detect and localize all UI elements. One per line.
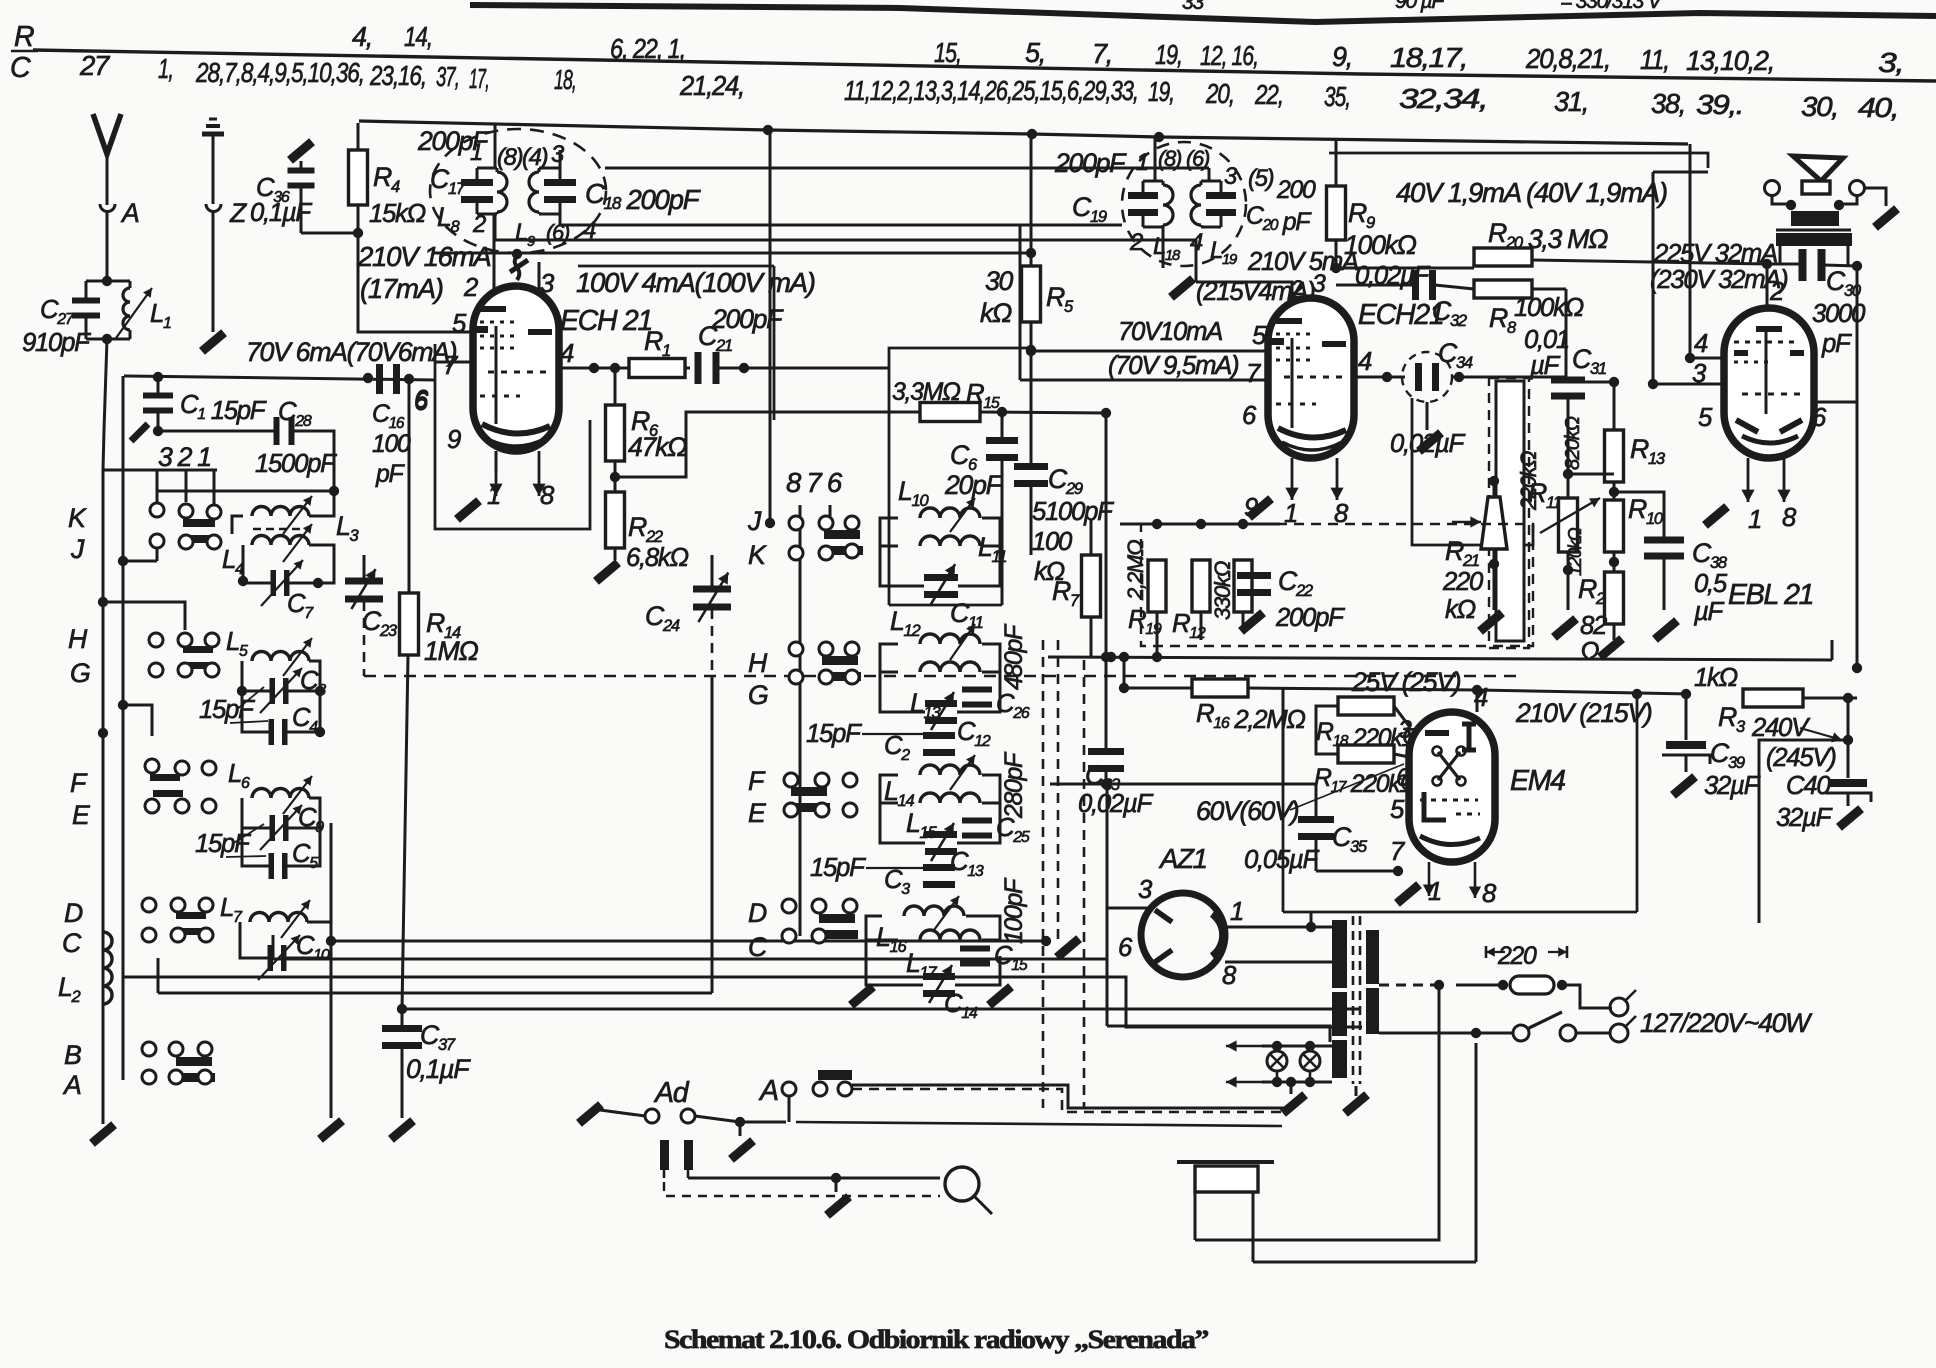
svg-text:B: B — [64, 1040, 81, 1070]
coil L1 variable — [129, 281, 132, 288]
capacitor C36 — [300, 161, 303, 169]
box around L10 region — [889, 348, 1031, 605]
IF coil L15 — [920, 793, 980, 803]
ground mid-left — [320, 1121, 342, 1140]
wires resistor block — [1120, 523, 1280, 526]
band switch section B/A — [142, 1042, 156, 1056]
solid bus from switch A — [852, 1085, 1290, 1108]
pin 7 stub — [435, 361, 473, 364]
capacitor C26 — [962, 687, 992, 693]
svg-text:E: E — [748, 798, 767, 828]
pin 1 lead IF II — [1154, 137, 1157, 181]
capacitor C25 — [962, 818, 992, 824]
power transformer secondary bars — [1366, 930, 1379, 984]
box 40V — [1329, 153, 1708, 168]
svg-text:23,16,: 23,16, — [369, 60, 426, 91]
svg-text:28,7,8,4,9,5,10,36,: 28,7,8,4,9,5,10,36, — [195, 57, 364, 88]
capacitor C27 with L1 tank — [102, 276, 112, 286]
svg-text:A: A — [758, 1075, 778, 1107]
wires R17 R18 — [1316, 706, 1338, 754]
svg-text:480pF: 480pF — [1001, 623, 1028, 690]
wire box around 210V label — [358, 233, 474, 332]
svg-text:(70V 9,5mA): (70V 9,5mA) — [1108, 352, 1239, 380]
resistor R4 — [357, 123, 360, 150]
svg-text:30: 30 — [985, 266, 1014, 296]
svg-text:3 2 1: 3 2 1 — [158, 442, 211, 472]
grid 2 lead — [493, 215, 496, 302]
trimmer C4 — [269, 719, 275, 745]
svg-text:100: 100 — [1032, 528, 1073, 556]
capacitor C21 — [695, 352, 702, 384]
ECH21 II internals — [1276, 318, 1302, 324]
output transformer core line — [1776, 229, 1851, 232]
svg-text:21,24,: 21,24, — [679, 70, 744, 101]
svg-text:6: 6 — [1812, 404, 1827, 432]
ECH21 I internals — [480, 306, 506, 312]
variable capacitor C23 — [345, 578, 383, 585]
ground speaker — [1875, 209, 1897, 228]
svg-text:0,1µF: 0,1µF — [406, 1054, 471, 1084]
svg-text:C: C — [748, 932, 768, 962]
svg-text:330kΩ: 330kΩ — [1210, 560, 1235, 620]
capacitor C18 — [544, 179, 576, 186]
svg-text:3: 3 — [1224, 163, 1238, 190]
tube AZ1 envelope — [1141, 893, 1225, 977]
svg-text:(8): (8) — [1158, 146, 1182, 171]
svg-text:6,8kΩ: 6,8kΩ — [626, 544, 688, 572]
svg-text:D: D — [748, 898, 767, 928]
resistor R18 — [1282, 688, 1284, 706]
phono shelf — [1177, 1160, 1274, 1164]
transformer core dashed — [1352, 916, 1355, 1084]
svg-text:1: 1 — [470, 139, 482, 166]
coil L4 variable — [252, 536, 309, 546]
resistor R9 — [1335, 139, 1338, 186]
capacitor C37 — [401, 1009, 404, 1026]
section F/E loop wires — [242, 798, 270, 866]
svg-text:220: 220 — [1497, 943, 1537, 970]
svg-text:1: 1 — [1136, 149, 1148, 176]
anode wire to C34 — [1354, 376, 1405, 379]
capacitor C34 in dashed circle — [1402, 352, 1452, 402]
svg-text:= 330/313 V: = 330/313 V — [1560, 0, 1664, 13]
svg-text:13,10,2,: 13,10,2, — [1686, 45, 1774, 76]
svg-text:3: 3 — [540, 270, 555, 298]
svg-text:EM4: EM4 — [1510, 765, 1565, 797]
svg-text:19,: 19, — [1155, 39, 1182, 70]
anode wire pin4 to R1 — [559, 367, 629, 370]
antenna symbol — [93, 114, 121, 154]
ground left bus — [92, 1125, 114, 1144]
output transformer secondary bar — [1776, 233, 1852, 246]
svg-text:15pF: 15pF — [810, 854, 866, 882]
svg-text:37,: 37, — [436, 61, 459, 92]
svg-text:0,01: 0,01 — [1524, 326, 1569, 354]
speaker body — [1802, 181, 1830, 194]
band switch section K/J — [150, 503, 164, 517]
wire 70V to mixer — [980, 411, 1031, 413]
svg-text:18,17,: 18,17, — [1390, 42, 1467, 73]
svg-text:R16 2,2MΩ: R16 2,2MΩ — [1196, 700, 1305, 734]
svg-text:910pF: 910pF — [22, 329, 91, 357]
trimmer C14 — [923, 973, 955, 980]
tube ECH21 II envelope — [1268, 298, 1354, 458]
svg-text:3,: 3, — [1878, 47, 1903, 78]
svg-text:8: 8 — [1782, 504, 1797, 532]
svg-text:25V (25V): 25V (25V) — [1351, 667, 1461, 697]
ground IF II — [1162, 227, 1165, 268]
trimmer stroke near C1 — [131, 424, 148, 441]
resistor R14 — [400, 593, 419, 655]
leads to C30 line — [1779, 246, 1782, 264]
trimmer C13 — [925, 831, 957, 838]
svg-text:20,8,21,: 20,8,21, — [1525, 43, 1610, 74]
pin leads ECH21 II — [1291, 458, 1294, 500]
EBL21 pin6 wire — [1814, 401, 1857, 404]
svg-text:3: 3 — [551, 141, 565, 168]
svg-text:8 7 6: 8 7 6 — [786, 467, 843, 498]
svg-text:0,5: 0,5 — [1694, 570, 1728, 598]
svg-text:6: 6 — [1242, 402, 1257, 430]
capacitor C6 — [986, 437, 1018, 444]
svg-text:1500pF: 1500pF — [255, 450, 337, 478]
coil L3 variable — [252, 507, 309, 517]
top cap connector of ECH21 I — [512, 249, 522, 259]
grid wire EBL21 — [1568, 473, 1614, 475]
svg-text:(5): (5) — [1248, 165, 1274, 192]
capacitor C40 — [1847, 740, 1850, 778]
dashed pickup return — [664, 1182, 938, 1196]
svg-text:J: J — [747, 506, 762, 536]
svg-text:(245V): (245V) — [1766, 744, 1836, 772]
HT branch vertical — [1030, 134, 1033, 266]
svg-text:C40: C40 — [1786, 772, 1831, 800]
svg-text:210V 16mA: 210V 16mA — [357, 241, 491, 272]
svg-text:70V10mA: 70V10mA — [1118, 318, 1222, 346]
svg-text:1kΩ: 1kΩ — [1694, 664, 1738, 692]
capacitor C29 — [1014, 463, 1048, 470]
terminal circles mains — [1610, 998, 1628, 1016]
variable capacitor C24 — [693, 586, 731, 593]
svg-text:4: 4 — [1190, 229, 1203, 256]
svg-text:(4): (4) — [522, 144, 548, 171]
svg-text:K: K — [748, 540, 767, 570]
svg-text:H: H — [748, 648, 768, 678]
IF can II dashed circle — [1122, 142, 1246, 266]
dashed box R11 — [1489, 378, 1529, 648]
EBL21 pin leads — [1747, 458, 1750, 502]
potentiometer R21 — [1481, 497, 1507, 549]
dashed gang line — [364, 675, 1520, 678]
resistor R22 — [606, 492, 625, 548]
svg-text:(8): (8) — [497, 144, 523, 171]
left wiring verticals — [272, 935, 275, 959]
IF coil L16 — [904, 906, 964, 916]
wire R9 node to R20/R8 — [1336, 267, 1474, 270]
section K/J loop wires — [243, 545, 271, 583]
mid switch section J/K — [765, 518, 775, 528]
pin 5 wire ECH21 II — [1031, 350, 1268, 353]
trimmer C2 — [923, 732, 955, 739]
svg-text:Ω: Ω — [1580, 638, 1599, 666]
secondary coil L9 — [529, 172, 539, 212]
svg-text:pF: pF — [375, 461, 406, 488]
svg-text:3,3MΩ: 3,3MΩ — [892, 379, 961, 406]
pin 4 lead IF I — [559, 214, 562, 225]
EM4 internals — [1425, 730, 1449, 736]
wire 245V to vertical — [1759, 740, 1848, 923]
svg-text:2,2MΩ: 2,2MΩ — [1123, 539, 1148, 601]
svg-text:15,: 15, — [934, 37, 961, 68]
HT bus down to pin4 — [1689, 144, 1692, 358]
pin 3 lead IF I — [559, 150, 562, 168]
ground above C36 — [290, 142, 312, 161]
svg-text:11,: 11, — [1640, 44, 1669, 75]
svg-text:100V 4mA(100V mA): 100V 4mA(100V mA) — [576, 267, 815, 298]
svg-text:D: D — [64, 898, 83, 928]
IF can I dashed circle — [430, 129, 606, 253]
ground below R22 — [596, 563, 618, 582]
svg-text:K: K — [68, 503, 87, 533]
svg-text:82: 82 — [1580, 612, 1607, 640]
capacitor C33 — [1105, 657, 1108, 749]
svg-text:11,12,2,13,3,14,26,25,15,6,29,: 11,12,2,13,3,14,26,25,15,6,29,33, — [844, 75, 1138, 106]
svg-text:2: 2 — [1129, 229, 1143, 256]
svg-text:G: G — [748, 680, 768, 710]
screen wire pin3 — [1653, 383, 1724, 386]
svg-text:5: 5 — [1390, 796, 1405, 824]
box EM4 bottom — [1282, 784, 1285, 912]
AVC wire down to C33 — [1105, 413, 1108, 657]
svg-text:27: 27 — [79, 50, 111, 81]
svg-text:9: 9 — [447, 426, 461, 454]
svg-text:Ad: Ad — [653, 1077, 690, 1109]
svg-text:AZ1: AZ1 — [1158, 843, 1207, 874]
svg-text:40,: 40, — [1858, 92, 1898, 123]
coil L18 — [1163, 185, 1173, 225]
svg-text:6: 6 — [414, 386, 429, 414]
svg-text:33: 33 — [1182, 0, 1204, 14]
grid lead ECH21 II — [1196, 282, 1292, 300]
svg-text:220: 220 — [1442, 568, 1484, 596]
band switch section F/E — [118, 700, 128, 710]
trimmer C7 — [271, 570, 277, 596]
svg-text:100: 100 — [372, 431, 411, 458]
trimmer C5 — [269, 853, 275, 879]
svg-text:ECH 21: ECH 21 — [560, 305, 652, 337]
ground at ECH21 I cathode — [457, 501, 479, 520]
coil L7 variable — [250, 912, 307, 922]
wire 70V row — [124, 376, 435, 380]
svg-text:5: 5 — [1698, 404, 1713, 432]
trimmer C11 — [924, 574, 958, 581]
svg-text:E: E — [72, 800, 91, 830]
earth plug Z — [206, 204, 221, 212]
EBL21 internals — [1756, 326, 1782, 332]
speaker terminals — [1765, 181, 1780, 196]
AZ1 internals — [1155, 910, 1172, 922]
feedback wire R6 to R15 — [615, 412, 920, 477]
svg-text:4,: 4, — [352, 21, 372, 52]
transformer top wire — [1309, 911, 1311, 913]
svg-text:225V 32mA: 225V 32mA — [1653, 240, 1777, 268]
IF coil L13 — [920, 662, 980, 672]
pin 9/1/8 leads with arrows — [495, 451, 498, 472]
svg-text:47kΩ: 47kΩ — [628, 432, 687, 462]
capacitor C30 — [1762, 259, 1772, 269]
long wire C30 right down — [1856, 266, 1859, 668]
trimmer C3 — [923, 864, 955, 871]
svg-text:4: 4 — [1358, 348, 1372, 376]
svg-text:5: 5 — [1252, 322, 1267, 350]
capacitor C20 plates — [1206, 192, 1236, 199]
ground Ad — [739, 1122, 742, 1136]
svg-text:5100pF: 5100pF — [1032, 498, 1114, 526]
svg-text:280pF: 280pF — [1001, 751, 1028, 819]
tube ECH21 I envelope — [473, 286, 559, 451]
capacitor C19 plates — [1128, 192, 1158, 199]
svg-text:2: 2 — [472, 211, 486, 238]
mains switch — [1379, 1032, 1476, 1035]
anode lead pin 3 — [538, 262, 541, 330]
svg-text:3: 3 — [1138, 876, 1153, 904]
capacitor C38 — [1614, 492, 1664, 538]
svg-text:(6): (6) — [1186, 146, 1210, 171]
box around ECH21 I stage — [773, 266, 776, 420]
pin 1 lead IF I — [494, 123, 497, 168]
svg-text:90 µF: 90 µF — [1395, 0, 1445, 13]
svg-text:35,: 35, — [1324, 81, 1350, 112]
plug pins Ad — [660, 1140, 669, 1170]
capacitor C1 — [157, 377, 160, 394]
svg-text:210V 5mA: 210V 5mA — [1247, 248, 1358, 276]
IF coil L17 — [920, 930, 980, 940]
trimmer C9 — [270, 815, 276, 841]
svg-text:kΩ: kΩ — [1445, 596, 1476, 624]
coil L2 on antenna bus — [103, 932, 112, 1004]
svg-text:1,: 1, — [158, 53, 173, 84]
svg-text:30,: 30, — [1801, 91, 1838, 122]
svg-text:15pF: 15pF — [806, 720, 862, 748]
antenna line down to switch — [103, 339, 107, 470]
capacitor C16 — [376, 364, 383, 394]
svg-text:19,: 19, — [1148, 76, 1174, 107]
grid return wire down from R1 node — [614, 368, 617, 405]
svg-text:20pF: 20pF — [944, 470, 1004, 500]
svg-text:8: 8 — [1482, 880, 1497, 908]
capacitor C35 — [1315, 784, 1318, 818]
svg-text:8: 8 — [1222, 962, 1237, 990]
wire R13 top to anode bus — [1566, 381, 1614, 384]
svg-text:4: 4 — [560, 340, 574, 368]
resistor R1 — [629, 359, 685, 378]
svg-text:C: C — [10, 52, 31, 84]
resistor R11 — [1496, 381, 1524, 641]
power transformer primary bars — [1332, 920, 1347, 988]
ground on AVC bus — [1057, 939, 1079, 958]
section D/C loop wires — [240, 922, 269, 958]
dashed AVC wires near A — [852, 1089, 1282, 1112]
resistor R7 — [1082, 555, 1101, 617]
grounds mid switch — [851, 987, 873, 1006]
svg-text:1MΩ: 1MΩ — [424, 636, 478, 666]
svg-text:A: A — [120, 198, 139, 228]
svg-text:200: 200 — [1276, 177, 1316, 204]
AVC bus lines — [1048, 657, 1832, 660]
svg-text:18,: 18, — [554, 64, 576, 95]
mid switch section H/G — [789, 642, 803, 656]
svg-text:70V 6mA(70V6mA): 70V 6mA(70V6mA) — [246, 337, 457, 367]
svg-text:39,.: 39,. — [1696, 89, 1743, 120]
resistor R10 — [1605, 500, 1624, 552]
svg-text:0,1µF: 0,1µF — [250, 199, 312, 227]
IF coil L11 — [920, 536, 980, 546]
tube EBL21 envelope — [1724, 308, 1814, 458]
dashed box detector — [1141, 524, 1533, 646]
wire from earth branch — [432, 252, 1031, 255]
capacitor C28 — [158, 430, 274, 433]
capacitor C15 — [960, 946, 990, 952]
AZ1 pin wires — [1106, 784, 1109, 1026]
capacitor C31 — [1565, 377, 1568, 379]
resistor R17 — [1338, 745, 1394, 763]
IF coil L12 — [920, 634, 980, 644]
earth symbol Z — [202, 132, 224, 137]
wire to EBL21 anode — [1766, 264, 1769, 308]
ground below C37 — [391, 1121, 413, 1140]
svg-text:G: G — [70, 658, 90, 688]
svg-text:17,: 17, — [469, 63, 489, 94]
svg-text:200pF: 200pF — [1275, 604, 1345, 632]
svg-text:(17mA): (17mA) — [360, 273, 443, 304]
svg-text:R: R — [14, 21, 34, 53]
wire from C31 node to EBL21 grid — [1568, 473, 1614, 476]
capacitor C22 — [1237, 572, 1271, 579]
EM4 pin leads — [1476, 690, 1479, 712]
svg-text:A: A — [62, 1070, 81, 1100]
dashed bus down — [1042, 640, 1045, 1108]
switch A — [782, 1082, 796, 1096]
svg-text:7,: 7, — [1092, 38, 1112, 69]
top HT bus wire — [359, 121, 1688, 144]
resistor R6 — [606, 405, 625, 461]
svg-text:210V (215V): 210V (215V) — [1515, 698, 1652, 728]
fuse and 220 tap — [1379, 937, 1420, 939]
potentiometer 120k — [1559, 498, 1578, 552]
svg-text:22,: 22, — [1254, 79, 1283, 110]
pin 2 lead IF I — [494, 214, 497, 240]
svg-text:38,: 38, — [1651, 88, 1685, 119]
coil L6 variable — [252, 789, 309, 799]
mid switch verticals — [769, 131, 772, 523]
svg-text:32µF: 32µF — [1776, 804, 1833, 832]
mid switch section F/E — [784, 773, 798, 787]
svg-text:15kΩ: 15kΩ — [369, 200, 426, 228]
svg-text:1: 1 — [1748, 506, 1761, 534]
trimmer C10 — [268, 945, 274, 971]
grid leak wire down from IF II — [1386, 376, 1388, 378]
svg-text:40V 1,9mA (40V 1,9mA): 40V 1,9mA (40V 1,9mA) — [1396, 177, 1667, 208]
svg-text:EBL 21: EBL 21 — [1728, 579, 1813, 611]
svg-text:100pF: 100pF — [1001, 877, 1028, 944]
section H/G loop wires — [242, 661, 270, 732]
box ECH21 II stage — [1412, 398, 1533, 545]
pin 3 lead IF II — [1208, 168, 1211, 181]
svg-text:3: 3 — [1312, 271, 1326, 298]
secondary HT wire down — [1195, 985, 1439, 1240]
capacitor C39 — [1685, 698, 1688, 740]
capacitor C17 — [461, 179, 493, 186]
